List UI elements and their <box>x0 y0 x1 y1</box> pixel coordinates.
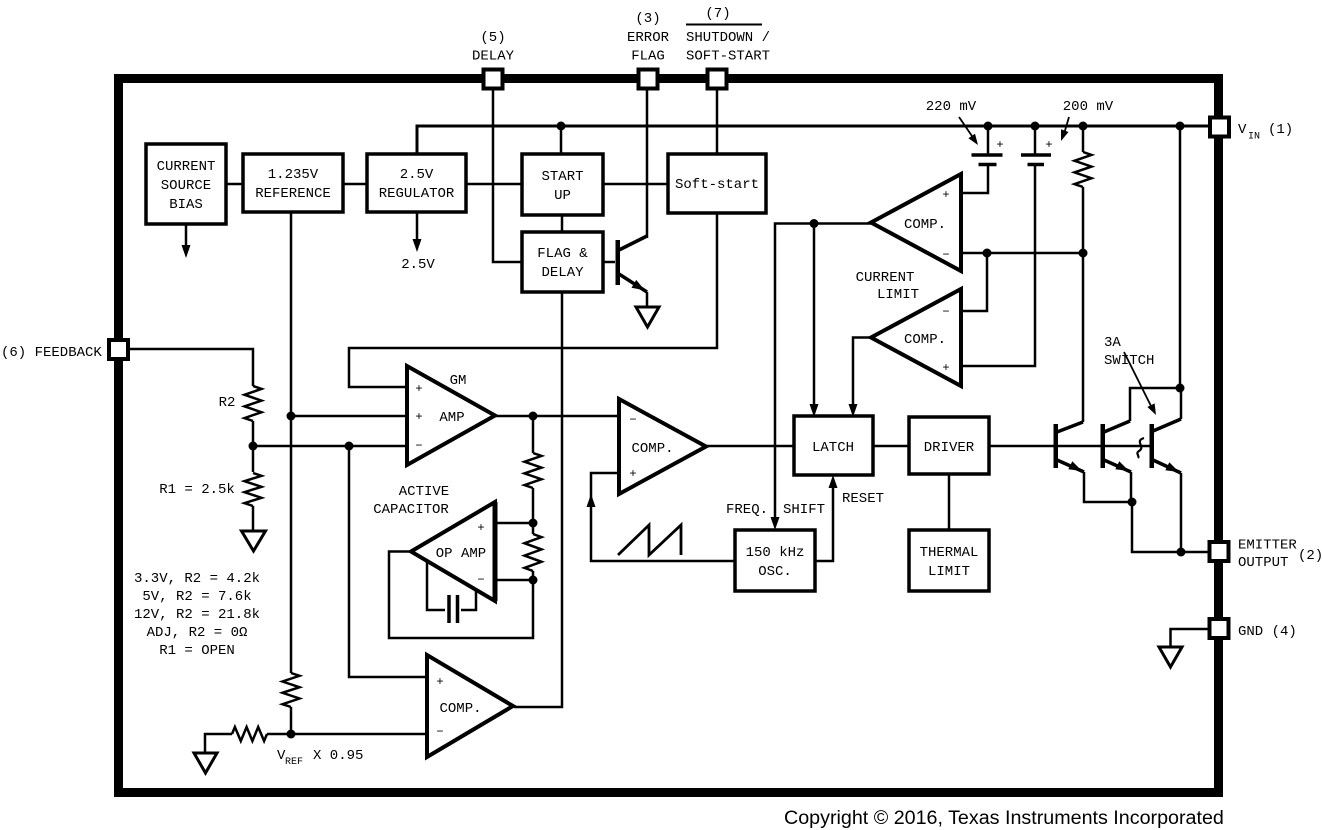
node comp-minus <box>983 249 992 258</box>
node emitters12 <box>1128 498 1137 507</box>
wire compA output <box>775 224 871 520</box>
svg-text:SOFT-START: SOFT-START <box>686 49 770 65</box>
svg-text:12V, R2 = 21.8k: 12V, R2 = 21.8k <box>134 607 260 623</box>
wire compB output to latch <box>853 338 871 407</box>
svg-text:LIMIT: LIMIT <box>877 287 919 303</box>
wire Rsense to Q1 collector <box>1082 187 1085 422</box>
wire reference 1.235V vertical <box>290 212 293 673</box>
wire regulator bottom stub <box>416 212 419 242</box>
svg-text:(3): (3) <box>635 11 660 27</box>
node rail-rsense <box>1079 122 1088 131</box>
wire reference resistor top <box>283 673 300 707</box>
svg-text:ACTIVE: ACTIVE <box>399 484 449 500</box>
wire opamp feedback loop <box>389 552 533 639</box>
wire Q1 emitter down <box>1084 472 1132 502</box>
ground Q4 <box>636 307 659 327</box>
wire reset from oscillator <box>815 486 833 561</box>
wire pwm plus from oscillator <box>591 473 735 561</box>
block 2.5V REGULATOR <box>367 154 466 212</box>
transistor Q3 <box>1150 424 1155 468</box>
svg-text:R1 = 2.5k: R1 = 2.5k <box>159 482 235 498</box>
block CURRENT SOURCE BIAS <box>146 144 226 224</box>
svg-text:200 mV: 200 mV <box>1063 99 1114 115</box>
pin (4) GND <box>1210 619 1229 638</box>
arrow regulator down <box>413 239 422 252</box>
wire startup-top <box>560 126 563 154</box>
IC boundary frame <box>119 79 1219 793</box>
svg-text:3.3V, R2 = 4.2k: 3.3V, R2 = 4.2k <box>134 571 260 587</box>
svg-text:DRIVER: DRIVER <box>924 440 975 456</box>
arrow compA into latch <box>810 404 819 417</box>
ground GND pin <box>1159 647 1182 667</box>
pin (7) SHUTDOWN/SOFT-START <box>708 70 727 89</box>
svg-text:150 kHz: 150 kHz <box>746 545 805 561</box>
wire node to R1 <box>252 446 255 472</box>
svg-text:−: − <box>942 248 949 262</box>
svg-text:THERMAL: THERMAL <box>920 545 979 561</box>
svg-text:UP: UP <box>554 188 571 204</box>
annotation arrow 200mV <box>1064 117 1069 134</box>
svg-text:(2): (2) <box>1298 548 1322 564</box>
wire pwm output to latch <box>706 445 794 448</box>
svg-text:R1 = OPEN: R1 = OPEN <box>159 643 235 659</box>
svg-text:−: − <box>629 413 636 427</box>
transistor Q4 flag <box>616 240 621 285</box>
block LATCH <box>794 416 873 475</box>
arrow Q1 emitter <box>1068 461 1082 471</box>
node rail-bat200 <box>1031 122 1040 131</box>
node opamp-plus <box>529 519 538 528</box>
resistor R1 <box>245 473 262 506</box>
resistor vref-gnd <box>232 727 267 741</box>
svg-text:EMITTER: EMITTER <box>1238 538 1297 554</box>
wire ref to GM-amp noninverting input <box>291 415 407 418</box>
svg-text:+: + <box>942 188 949 202</box>
svg-text:REFERENCE: REFERENCE <box>255 186 331 202</box>
wire reference-to-regulator <box>343 183 367 186</box>
svg-text:3A: 3A <box>1104 335 1121 351</box>
svg-text:FREQ.: FREQ. <box>726 502 768 518</box>
arrow Q2 emitter <box>1115 461 1129 471</box>
svg-text:COMP.: COMP. <box>631 441 673 457</box>
svg-text:REGULATOR: REGULATOR <box>379 186 455 202</box>
svg-text:REF: REF <box>285 757 303 768</box>
svg-text:DELAY: DELAY <box>472 49 515 65</box>
op-amp OP AMP <box>411 502 495 601</box>
wire capacitor left lead <box>427 562 445 610</box>
node compA-latch <box>810 219 819 228</box>
svg-text:5V, R2 = 7.6k: 5V, R2 = 7.6k <box>142 589 251 605</box>
svg-text:OP AMP: OP AMP <box>436 546 486 562</box>
wire softstart-to-gm-amp <box>349 213 717 387</box>
node rail-bat220 <box>984 122 993 131</box>
pin (1) VIN <box>1210 118 1229 137</box>
wire GM output to comparator <box>495 415 619 418</box>
block 150 kHz OSC <box>735 530 815 591</box>
svg-text:2.5V: 2.5V <box>401 257 435 273</box>
svg-text:COMP.: COMP. <box>904 217 946 233</box>
wire compB plus input <box>961 166 1035 366</box>
sawtooth waveform symbol <box>618 525 681 555</box>
wire Q2 emitter down <box>1130 472 1133 502</box>
arrow freq-shift into osc <box>771 517 780 530</box>
arrow osc ramp up <box>587 494 596 507</box>
svg-text:(6) FEEDBACK: (6) FEEDBACK <box>1 345 102 361</box>
svg-text:IN: IN <box>1248 132 1260 143</box>
wire flagdelay-base <box>603 261 615 264</box>
comparator current-limit B <box>871 289 961 386</box>
svg-text:−: − <box>942 305 949 319</box>
wire delay pin stem <box>493 90 522 262</box>
arrow Q3 emitter <box>1165 462 1179 472</box>
svg-text:FLAG: FLAG <box>631 49 665 65</box>
block Soft-start <box>668 154 766 213</box>
transistor Q1 <box>1054 424 1059 468</box>
wire opamp minus input <box>495 579 533 582</box>
arrow Q4 emitter <box>632 280 646 291</box>
wire emitter bus <box>1132 502 1208 552</box>
wire R2 to node FB2 <box>252 421 255 446</box>
wire compB minus input <box>961 253 987 311</box>
node rail-q23 <box>1176 122 1185 131</box>
svg-text:CAPACITOR: CAPACITOR <box>373 502 449 518</box>
annotation arrow 3A switch <box>1124 352 1152 408</box>
svg-text:Soft-start: Soft-start <box>675 177 759 193</box>
node VREF095 <box>287 730 296 739</box>
svg-text:ERROR: ERROR <box>627 30 670 46</box>
node gm-inv-branch <box>345 442 354 451</box>
node q23-collector <box>1176 384 1185 393</box>
svg-text:1.235V: 1.235V <box>268 167 319 183</box>
svg-text:GM: GM <box>450 373 467 389</box>
wire error-flag pin stem <box>646 90 649 238</box>
svg-text:Copyright © 2016, Texas Instru: Copyright © 2016, Texas Instruments Inco… <box>784 807 1224 829</box>
node rail-startup <box>557 122 566 131</box>
svg-text:GND (4): GND (4) <box>1238 624 1297 640</box>
wire base rail from driver <box>989 445 1150 448</box>
wire regulator-to-startup <box>466 183 522 186</box>
svg-text:SHIFT: SHIFT <box>783 502 825 518</box>
wire vref node left <box>267 733 291 736</box>
wire shutdown pin stem <box>716 90 719 154</box>
annotation arrow 220mV <box>959 117 974 139</box>
resistor Rfb2 <box>525 534 542 571</box>
svg-text:RESET: RESET <box>842 491 884 507</box>
svg-text:LIMIT: LIMIT <box>928 564 970 580</box>
svg-text:OUTPUT: OUTPUT <box>1238 555 1288 571</box>
svg-text:START: START <box>541 169 583 185</box>
wire gm-out down <box>532 416 535 453</box>
node gm-out <box>529 412 538 421</box>
comparator flag COMP <box>427 655 513 757</box>
wire Q3 collector up <box>1180 388 1183 419</box>
wire bias bottom stub <box>185 224 188 248</box>
capacitor C1 <box>449 595 458 623</box>
svg-text:−: − <box>436 725 443 739</box>
svg-text:ADJ, R2 = 0Ω: ADJ, R2 = 0Ω <box>147 625 248 641</box>
svg-text:220 mV: 220 mV <box>926 99 977 115</box>
block 1.235V REFERENCE <box>243 154 343 212</box>
svg-text:(7): (7) <box>705 6 730 22</box>
svg-text:2.5V: 2.5V <box>400 167 434 183</box>
block THERMAL LIMIT <box>909 530 989 591</box>
svg-text:COMP.: COMP. <box>439 701 481 717</box>
wire feedback pin to R2 <box>128 349 253 386</box>
comparator current-limit A <box>871 174 961 271</box>
resistor Rfb1 <box>525 453 542 488</box>
pin (6) FEEDBACK <box>109 340 128 359</box>
svg-text:(1): (1) <box>1268 122 1293 138</box>
wire capacitor right lead <box>461 591 476 610</box>
block FLAG & DELAY <box>522 232 603 292</box>
wire bias-to-reference <box>226 183 243 186</box>
ground vref <box>194 753 217 773</box>
ground under R1 <box>242 531 266 551</box>
battery 220mV offset <box>987 126 990 154</box>
wire Q4 emitter to ground <box>646 292 649 307</box>
node ref-gm <box>287 412 296 421</box>
wire rfb1-rfb2 <box>532 488 535 534</box>
svg-text:X 0.95: X 0.95 <box>313 748 363 764</box>
svg-text:+: + <box>629 467 636 481</box>
svg-text:+: + <box>477 521 484 535</box>
svg-text:COMP.: COMP. <box>904 332 946 348</box>
svg-text:−: − <box>415 439 422 453</box>
node rsense-bottom <box>1079 249 1088 258</box>
svg-text:+: + <box>1045 138 1052 152</box>
resistor R2 <box>245 386 262 421</box>
pin (2) EMITTER OUTPUT <box>1210 542 1229 561</box>
svg-text:OSC.: OSC. <box>758 564 792 580</box>
svg-text:CURRENT: CURRENT <box>157 159 216 175</box>
svg-text:+: + <box>415 410 422 424</box>
block START UP <box>522 154 603 215</box>
wire VIN rail (net VIN) <box>417 126 1208 154</box>
wire resistor to vref node <box>290 707 293 734</box>
arrow bias down <box>182 245 191 258</box>
wire opamp plus input <box>495 522 533 525</box>
svg-text:R2: R2 <box>219 395 236 411</box>
svg-text:AMP: AMP <box>439 410 464 426</box>
wire driver to thermal limit <box>948 474 951 530</box>
svg-text:−: − <box>477 573 484 587</box>
wire gnd pin to ground <box>1171 629 1210 647</box>
svg-text:(5): (5) <box>480 30 505 46</box>
svg-text:V: V <box>1238 122 1247 138</box>
arrow reset into latch <box>829 475 838 488</box>
svg-text:BIAS: BIAS <box>169 197 203 213</box>
svg-text:LATCH: LATCH <box>812 440 854 456</box>
svg-text:+: + <box>436 675 443 689</box>
op-amp GM AMP <box>407 366 495 465</box>
svg-text:+: + <box>415 382 422 396</box>
svg-text:+: + <box>996 138 1003 152</box>
node opamp-minus <box>529 576 538 585</box>
wire Q2 collector up <box>1130 388 1180 421</box>
symbol continuation squiggle <box>1137 438 1144 458</box>
wire flagdelay-down to comparator output <box>514 292 562 707</box>
svg-text:SOURCE: SOURCE <box>161 178 211 194</box>
wire startup-to-softstart <box>603 183 668 186</box>
wire rail to Rsense <box>1082 126 1085 152</box>
battery 200mV offset <box>1034 126 1037 154</box>
wire rail branch to Q2/Q3 collectors <box>1179 126 1182 388</box>
wire compA minus input <box>961 252 1083 255</box>
svg-text:SHUTDOWN /: SHUTDOWN / <box>686 30 770 46</box>
arrow compB into latch <box>849 404 858 417</box>
node emitter-out <box>1177 548 1186 557</box>
pin (5) DELAY <box>484 70 503 89</box>
transistor Q2 <box>1101 424 1106 468</box>
svg-text:+: + <box>942 361 949 375</box>
svg-text:CURRENT: CURRENT <box>856 270 915 286</box>
wire rfb2 to node <box>532 571 535 580</box>
wire startup-to-flagdelay <box>561 215 564 232</box>
pin (3) ERROR FLAG <box>639 70 658 89</box>
resistor Rsense <box>1075 152 1092 187</box>
wire vref node to comparator minus <box>291 733 427 736</box>
node FB divider <box>249 442 258 451</box>
comparator PWM COMP <box>619 399 706 494</box>
svg-text:FLAG &: FLAG & <box>537 246 588 262</box>
block DRIVER <box>909 417 989 474</box>
svg-text:DELAY: DELAY <box>541 265 584 281</box>
wire Q3 emitter down <box>1180 473 1183 552</box>
wire compA to latch <box>813 224 816 407</box>
wire to ground <box>205 734 232 753</box>
wire compA plus input <box>961 166 988 193</box>
wire R1 to ground <box>252 506 255 531</box>
wire latch to driver <box>873 445 909 448</box>
wire divider to GM-amp inverting input <box>253 445 407 448</box>
wire branch to lower comparator plus <box>349 446 427 677</box>
